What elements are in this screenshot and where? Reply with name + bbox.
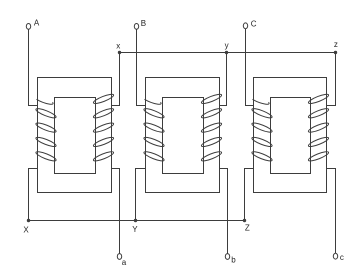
terminal c <box>333 253 344 262</box>
svg-text:y: y <box>225 41 229 50</box>
wire primary coil bottom T1 to X <box>29 169 38 221</box>
node Y junction dot <box>134 219 137 222</box>
wire secondary coil bottom T1 to terminal a <box>112 169 120 254</box>
terminal B <box>134 19 146 29</box>
svg-text:c: c <box>340 253 344 262</box>
node x junction dot <box>118 51 121 54</box>
wire secondary coil bottom T2 to terminal b <box>220 169 228 254</box>
transformer T1 core window <box>55 98 96 174</box>
wire primary coil bottom T2 to Y <box>136 169 146 221</box>
terminal a <box>117 254 126 267</box>
node Z junction dot <box>243 219 246 222</box>
terminal A <box>26 19 40 30</box>
svg-text:x: x <box>116 41 120 50</box>
wire top bus x-y-z <box>120 52 336 54</box>
node X junction dot <box>27 219 30 222</box>
wire C to primary coil top <box>246 29 254 106</box>
coil secondary T2 (right leg) <box>201 93 223 163</box>
wire B to primary coil top <box>137 29 146 105</box>
transformer T2 core window <box>163 98 204 174</box>
coil primary T2 (left leg) <box>143 99 165 162</box>
wire node to secondary coil top T3 <box>327 53 336 106</box>
svg-text:b: b <box>231 255 236 264</box>
wire A to primary coil top <box>29 29 38 105</box>
terminal C <box>243 20 256 29</box>
node z junction dot <box>334 51 337 54</box>
svg-text:Z: Z <box>245 224 250 233</box>
wire bottom bus X-Y-Z <box>29 220 245 222</box>
terminal b <box>225 254 236 265</box>
node y junction dot <box>225 51 228 54</box>
wire node to secondary coil top T2 <box>220 53 227 106</box>
coil primary T3 (left leg) <box>251 99 273 162</box>
svg-text:A: A <box>34 19 40 28</box>
svg-text:z: z <box>334 40 338 49</box>
svg-text:a: a <box>122 258 127 267</box>
wire secondary coil bottom T3 to terminal c <box>327 169 336 254</box>
transformer T3 core window <box>271 98 311 174</box>
wire primary coil bottom T3 to Z <box>245 169 254 221</box>
transformer T2 core outer outline <box>146 78 220 193</box>
coil primary T1 (left leg) <box>35 99 57 162</box>
transformer T3 core outer outline <box>254 78 327 193</box>
coil secondary T1 (right leg) <box>93 93 115 163</box>
coil secondary T3 (right leg) <box>308 93 330 163</box>
svg-text:Y: Y <box>132 225 138 234</box>
wire node to secondary coil top T1 <box>112 53 120 106</box>
svg-text:X: X <box>23 225 29 234</box>
svg-text:B: B <box>141 19 146 28</box>
transformer T1 core outer outline <box>38 78 112 193</box>
svg-text:C: C <box>251 20 257 29</box>
